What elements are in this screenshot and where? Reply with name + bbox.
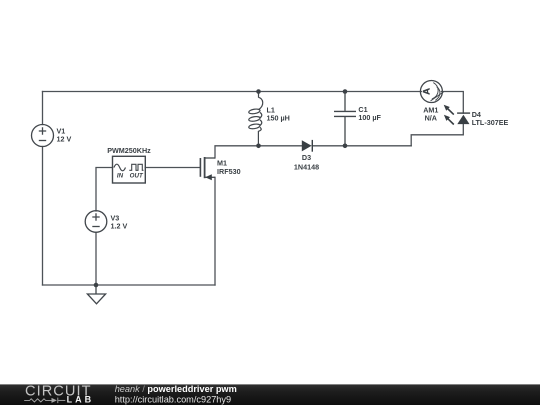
behavioral source PWM250KHz (107, 146, 151, 183)
svg-text:OUT: OUT (130, 172, 144, 179)
ground (87, 285, 105, 304)
inductor L1 (248, 92, 262, 146)
node L1 top (256, 89, 261, 94)
wire left vertical upper (42, 92, 44, 125)
transistor M1 (200, 157, 215, 178)
svg-text:12 V: 12 V (57, 135, 72, 144)
footer bar (0, 384, 540, 405)
label D4 LTL-307EE (472, 110, 509, 127)
label C1 100 uF (358, 105, 381, 122)
label L1 150 uH (267, 105, 290, 122)
label V3 1.2 V (111, 214, 128, 231)
LED D4 (444, 105, 470, 125)
wire V3 up to PWM input (96, 168, 113, 212)
svg-text:IRF530: IRF530 (217, 167, 241, 176)
wire V3 to bottom rail (95, 232, 97, 285)
logo squiggle resistor and diode (24, 398, 65, 404)
diode D3 (302, 140, 313, 152)
svg-text:LAB: LAB (67, 395, 95, 405)
svg-text:LTL-307EE: LTL-307EE (472, 118, 509, 127)
voltage source V1 (32, 125, 54, 147)
node V3 ground junction (94, 283, 99, 288)
label M1 IRF530 (217, 159, 241, 176)
label V1 12 V (57, 126, 72, 143)
svg-text:A: A (421, 88, 432, 95)
wire PWM out to gate (145, 167, 199, 169)
label D3 1N4148 (294, 153, 319, 171)
svg-text:http://circuitlab.com/c927hy9: http://circuitlab.com/c927hy9 (115, 395, 231, 405)
wire AM1 right to D4 top (441, 92, 463, 114)
ammeter AM1 (420, 81, 444, 103)
capacitor C1 (334, 92, 356, 146)
wire D3 cathode to step (312, 145, 411, 147)
svg-text:N/A: N/A (425, 114, 437, 123)
label AM1 N/A (423, 105, 438, 122)
wire source to bottom rail (214, 177, 216, 285)
svg-text:IN: IN (117, 172, 124, 179)
svg-text:1N4148: 1N4148 (294, 162, 319, 171)
voltage source V3 (85, 211, 107, 233)
node C1 bottom (343, 144, 348, 149)
wire step up and right to under D4 (411, 124, 463, 146)
wire node to D3 anode (259, 145, 302, 147)
svg-text:150 µH: 150 µH (267, 114, 290, 123)
node L1 bottom (256, 144, 261, 149)
node C1 top (343, 89, 348, 94)
svg-text:D3: D3 (302, 153, 311, 162)
wire drain to node (215, 146, 259, 158)
wire bottom rail (43, 284, 216, 286)
svg-text:100 µF: 100 µF (358, 113, 381, 122)
svg-text:1.2 V: 1.2 V (111, 222, 128, 231)
wire left vertical lower (42, 147, 44, 286)
svg-text:PWM250KHz: PWM250KHz (107, 146, 151, 155)
svg-text:heank / powerleddriver pwm: heank / powerleddriver pwm (115, 384, 237, 394)
wire top rail (43, 91, 422, 93)
